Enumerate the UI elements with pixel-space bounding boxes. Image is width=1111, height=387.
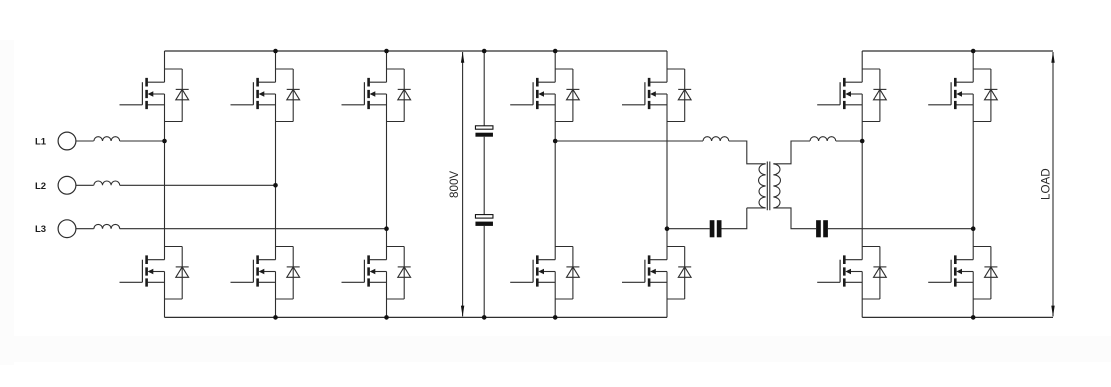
capacitor C2 (DC link lower) [475,215,493,219]
AC source L2 [58,176,76,194]
node bottom rail junction dot [384,315,389,320]
LOAD arrow [1052,52,1054,316]
capacitor DAB primary series [710,220,715,237]
svg-text:L3: L3 [35,224,46,235]
svg-text:800V: 800V [448,171,461,198]
inductor L2 line filter [94,181,120,185]
transformer T1 primary winding [759,164,766,208]
wire L2 source to inductor [76,184,94,186]
wire DAB primary bottom (leg B midpoint to series capacitor) [667,228,710,230]
wire phase leg 1 vertical [164,51,166,317]
transistor Q13 (low-side, output bridge leg A) with body diode [817,247,886,300]
node DAB primary bottom dot [665,226,670,231]
wire output bridge leg B vertical [972,51,974,317]
wire output bridge leg A vertical [861,51,863,317]
wire DAB primary top (leg A midpoint to series inductor) [555,140,703,142]
AC source L3 [58,220,76,238]
wire inductor to output bridge leg A [836,140,862,142]
wire L3 source to inductor [76,228,94,230]
capacitor DAB secondary series [816,220,821,237]
transistor Q2 (high-side, phase leg 2) with body diode [231,69,300,122]
node top rail junction dot [553,49,558,54]
transistor Q14 (low-side, output bridge leg B) with body diode [928,247,997,300]
transistor Q4 (low-side, phase leg 1) with body diode [120,247,189,300]
node output bridge top rail dot [971,49,976,54]
transistor Q12 (high-side, output bridge leg B) with body diode [928,69,997,122]
node top rail junction dot [273,49,278,54]
capacitor C1 (DC link upper) [475,126,493,129]
transistor Q11 (high-side, output bridge leg A) with body diode [817,69,886,122]
wire inductor to transformer primary top [729,141,766,164]
inductor DAB primary series [703,137,729,141]
node L2 junction dot [273,183,278,188]
wire L1 source to inductor [76,140,94,142]
transformer T1 core [767,162,770,211]
node L3 junction dot [384,226,389,231]
wire phase leg 2 vertical [275,51,277,317]
node cap branch junction dot [482,49,487,54]
svg-text:L2: L2 [35,181,46,192]
transistor Q10 (low-side, DAB primary leg B) with body diode [622,247,691,300]
inductor L1 line filter [94,137,120,141]
node bottom rail junction dot [553,315,558,320]
wire DAB primary leg B vertical [666,51,668,317]
wire DC-link capacitor branch [483,51,485,317]
wire top rail output bridge [862,50,1053,52]
svg-text:L1: L1 [35,137,47,148]
transistor Q3 (high-side, phase leg 3) with body diode [342,69,411,122]
svg-text:LOAD: LOAD [1040,168,1053,200]
transistor Q8 (high-side, DAB primary leg B) with body diode [622,69,691,122]
node L1 junction dot [162,139,167,144]
node bottom rail junction dot [273,315,278,320]
wire phase leg 3 vertical [386,51,388,317]
wire transformer secondary top to inductor [773,141,810,164]
node output bridge leg B midpoint dot [971,226,976,231]
wire transformer secondary bottom to capacitor [773,208,816,229]
inductor DAB secondary series [810,137,836,141]
wire top DC rail (rectifier + DAB primary bridge) [165,50,668,52]
node cap branch junction dot [482,315,487,320]
wire bottom rail output bridge [862,316,1053,318]
wire capacitor to output bridge leg B [828,228,973,230]
inductor L3 line filter [94,224,120,228]
node top rail junction dot [384,49,389,54]
transistor Q5 (low-side, phase leg 2) with body diode [231,247,300,300]
wire DAB primary leg A vertical [554,51,556,317]
AC source L1 [58,132,76,150]
transistor Q1 (high-side, phase leg 1) with body diode [120,69,189,122]
transistor Q9 (low-side, DAB primary leg A) with body diode [510,247,579,300]
node output bridge bottom rail dot [971,315,976,320]
transformer T1 secondary winding [773,164,780,208]
wire L1 inductor to leg [120,140,165,142]
transistor Q6 (low-side, phase leg 3) with body diode [342,247,411,300]
transistor Q7 (high-side, DAB primary leg A) with body diode [510,69,579,122]
wire bottom DC rail (rectifier + DAB primary bridge) [165,316,668,318]
node DAB primary top dot [553,139,558,144]
wire L3 inductor to leg [120,228,387,230]
800V measurement arrow [462,52,464,316]
wire L2 inductor to leg [120,184,276,186]
node output bridge leg A midpoint dot [860,139,865,144]
wire capacitor to transformer primary bottom [722,208,766,229]
